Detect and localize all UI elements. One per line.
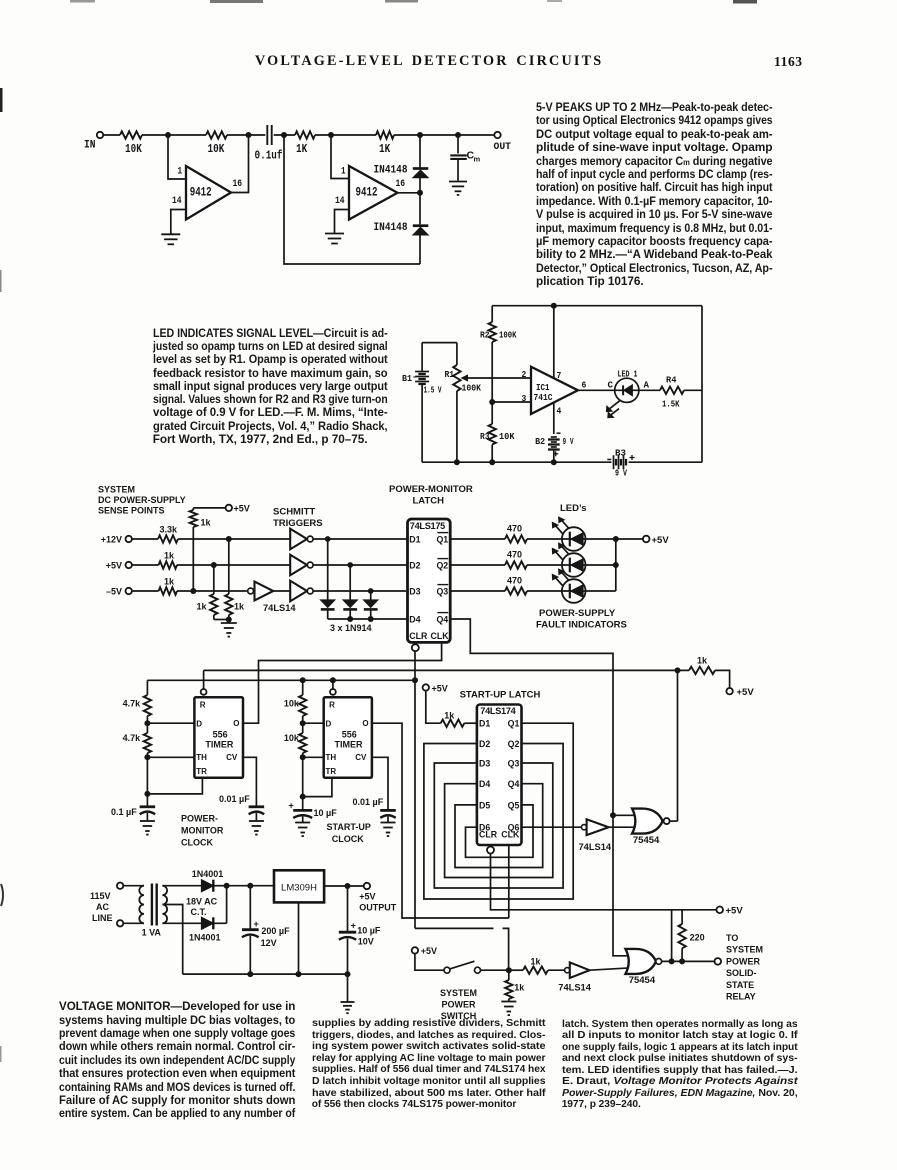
svg-text:9412: 9412 <box>356 185 378 199</box>
svg-text:+5V: +5V <box>359 891 375 901</box>
svg-text:Q2: Q2 <box>436 561 448 571</box>
svg-text:+: + <box>254 919 259 929</box>
svg-text:AC: AC <box>96 902 109 912</box>
svg-text:1.5 V: 1.5 V <box>424 385 442 396</box>
svg-text:12V: 12V <box>261 938 277 948</box>
svg-text:SWITCH: SWITCH <box>441 1011 477 1021</box>
svg-text:RELAY: RELAY <box>726 992 756 1002</box>
svg-text:D4: D4 <box>479 779 490 789</box>
svg-text:R4: R4 <box>666 375 677 386</box>
svg-text:SOLID-: SOLID- <box>726 968 757 978</box>
svg-text:3 x 1N914: 3 x 1N914 <box>330 623 372 633</box>
svg-text:MONITOR: MONITOR <box>181 826 224 836</box>
svg-text:+5V: +5V <box>737 687 755 698</box>
svg-text:CLR: CLR <box>479 830 498 840</box>
svg-text:10K: 10K <box>125 142 142 156</box>
svg-text:R3: R3 <box>480 431 490 442</box>
svg-text:470: 470 <box>507 524 522 534</box>
svg-text:CLOCK: CLOCK <box>332 834 364 844</box>
svg-text:1N4001: 1N4001 <box>192 869 224 879</box>
svg-text:CLK: CLK <box>431 631 450 641</box>
svg-text:B1: B1 <box>402 373 412 384</box>
svg-text:A: A <box>644 380 650 391</box>
svg-text:0.01 µF: 0.01 µF <box>219 794 250 804</box>
svg-text:2: 2 <box>522 369 527 380</box>
svg-text:1: 1 <box>178 167 183 178</box>
svg-text:D2: D2 <box>479 739 490 749</box>
svg-text:POWER-MONITOR: POWER-MONITOR <box>389 484 473 495</box>
svg-text:200 µF: 200 µF <box>261 926 290 936</box>
svg-text:556: 556 <box>342 729 357 739</box>
svg-text:4.7k: 4.7k <box>123 733 142 743</box>
svg-text:1K: 1K <box>379 142 391 156</box>
svg-text:B3: B3 <box>615 448 626 459</box>
svg-text:1.5K: 1.5K <box>662 399 680 410</box>
svg-text:C.T.: C.T. <box>191 907 207 917</box>
svg-text:TO: TO <box>726 933 738 943</box>
svg-text:C: C <box>608 380 614 391</box>
svg-text:D4: D4 <box>409 615 420 625</box>
svg-text:CLOCK: CLOCK <box>181 838 213 848</box>
svg-text:10k: 10k <box>284 699 300 709</box>
svg-text:SYSTEM: SYSTEM <box>726 945 763 955</box>
svg-text:74LS14: 74LS14 <box>558 983 591 993</box>
svg-text:LATCH: LATCH <box>413 496 445 507</box>
svg-text:SENSE POINTS: SENSE POINTS <box>98 506 165 516</box>
svg-text:CLK: CLK <box>501 830 520 840</box>
svg-text:16: 16 <box>396 179 406 190</box>
svg-text:TH: TH <box>196 753 207 762</box>
svg-text:Q4: Q4 <box>508 779 520 789</box>
svg-text:0.01 µF: 0.01 µF <box>353 797 384 807</box>
svg-text:D: D <box>196 719 202 728</box>
svg-text:TR: TR <box>196 767 207 776</box>
svg-text:+5V: +5V <box>726 906 744 917</box>
svg-text:1: 1 <box>341 167 346 178</box>
svg-text:O: O <box>362 719 368 728</box>
svg-text:TH: TH <box>326 753 337 762</box>
svg-text:10V: 10V <box>358 937 374 947</box>
svg-text:D3: D3 <box>479 759 490 769</box>
svg-text:m: m <box>474 155 481 164</box>
svg-text:0.1 µF: 0.1 µF <box>111 807 137 817</box>
svg-text:OUTPUT: OUTPUT <box>359 903 397 913</box>
svg-text:18V AC: 18V AC <box>186 897 218 907</box>
svg-text:Q1: Q1 <box>436 535 448 545</box>
svg-text:STATE: STATE <box>726 980 754 990</box>
svg-text:1N4001: 1N4001 <box>189 933 221 943</box>
svg-text:SYSTEM: SYSTEM <box>440 988 477 998</box>
svg-text:SYSTEM: SYSTEM <box>98 485 135 495</box>
svg-text:IN: IN <box>84 140 96 152</box>
svg-text:1k: 1k <box>164 577 175 587</box>
svg-text:FAULT INDICATORS: FAULT INDICATORS <box>536 620 627 631</box>
svg-text:100K: 100K <box>462 383 482 394</box>
svg-text:+5V: +5V <box>432 683 448 693</box>
svg-text:SCHMITT: SCHMITT <box>273 507 315 518</box>
svg-text:74LS174: 74LS174 <box>480 706 516 716</box>
svg-text:TRIGGERS: TRIGGERS <box>273 518 323 529</box>
svg-text:4.7k: 4.7k <box>123 699 142 709</box>
svg-text:1k: 1k <box>197 602 208 612</box>
svg-text:R2: R2 <box>480 330 490 341</box>
svg-text:–5V: –5V <box>106 587 122 597</box>
svg-text:B2: B2 <box>535 436 545 447</box>
svg-text:+: + <box>351 921 356 931</box>
svg-text:Q1: Q1 <box>508 719 520 729</box>
svg-text:D5: D5 <box>479 800 490 810</box>
svg-text:75454: 75454 <box>629 975 656 986</box>
svg-text:START-UP: START-UP <box>327 822 371 832</box>
svg-text:D3: D3 <box>409 587 420 597</box>
svg-text:3.3k: 3.3k <box>160 525 179 535</box>
svg-text:1 VA: 1 VA <box>142 928 162 938</box>
svg-text:TIMER: TIMER <box>205 740 233 750</box>
svg-text:POWER: POWER <box>726 956 761 966</box>
svg-text:10K: 10K <box>499 431 515 442</box>
svg-text:+5V: +5V <box>234 504 250 514</box>
svg-text:R: R <box>200 701 206 710</box>
svg-text:IN4148: IN4148 <box>374 222 408 234</box>
svg-text:D2: D2 <box>409 561 420 571</box>
svg-text:1k: 1k <box>697 656 708 666</box>
svg-text:+5V: +5V <box>652 535 670 546</box>
svg-text:75454: 75454 <box>633 835 660 846</box>
svg-text:10k: 10k <box>284 733 300 743</box>
svg-text:DC POWER-SUPPLY: DC POWER-SUPPLY <box>98 495 186 505</box>
svg-text:POWER-SUPPLY: POWER-SUPPLY <box>539 608 616 619</box>
svg-text:10K: 10K <box>208 142 225 156</box>
svg-text:D1: D1 <box>409 535 420 545</box>
svg-text:Q5: Q5 <box>508 800 520 810</box>
svg-text:+12V: +12V <box>101 535 122 545</box>
svg-text:R1: R1 <box>445 369 455 380</box>
svg-text:IN4148: IN4148 <box>374 165 408 177</box>
svg-text:CV: CV <box>226 753 238 762</box>
svg-text:9 V: 9 V <box>563 436 574 447</box>
svg-text:74LS175: 74LS175 <box>410 521 445 531</box>
svg-text:7: 7 <box>557 370 562 381</box>
svg-text:10 µF: 10 µF <box>357 926 381 936</box>
svg-text:TIMER: TIMER <box>335 740 363 750</box>
svg-text:+5V: +5V <box>106 561 122 571</box>
svg-text:Q2: Q2 <box>508 739 520 749</box>
svg-text:O: O <box>233 719 239 728</box>
svg-text:START-UP LATCH: START-UP LATCH <box>460 690 541 701</box>
svg-text:+5V: +5V <box>421 946 437 956</box>
svg-text:74LS14: 74LS14 <box>579 842 612 852</box>
svg-text:TR: TR <box>326 767 337 776</box>
svg-text:10 µF: 10 µF <box>314 808 338 818</box>
svg-text:16: 16 <box>233 179 243 190</box>
svg-text:+: + <box>289 801 294 811</box>
svg-text:LM309H: LM309H <box>281 883 317 894</box>
svg-text:POWER-: POWER- <box>181 814 218 824</box>
svg-text:LED’s: LED’s <box>560 503 587 514</box>
svg-text:470: 470 <box>507 576 522 586</box>
svg-text:9412: 9412 <box>190 185 212 199</box>
svg-text:OUT: OUT <box>494 141 512 153</box>
svg-text:1k: 1k <box>531 957 542 967</box>
svg-text:4: 4 <box>557 406 562 417</box>
svg-text:Q3: Q3 <box>508 759 520 769</box>
svg-text:6: 6 <box>582 380 587 391</box>
svg-text:POWER: POWER <box>441 1000 476 1010</box>
svg-text:14: 14 <box>335 196 345 207</box>
svg-text:D1: D1 <box>479 719 490 729</box>
svg-text:0.1uf: 0.1uf <box>255 150 283 163</box>
svg-text:1k: 1k <box>444 711 455 721</box>
svg-text:1k: 1k <box>514 983 525 993</box>
svg-text:LINE: LINE <box>92 913 113 923</box>
svg-text:741C: 741C <box>534 392 553 403</box>
svg-text:1K: 1K <box>296 142 308 156</box>
svg-text:CV: CV <box>355 753 367 762</box>
svg-text:470: 470 <box>507 550 522 560</box>
svg-text:74LS14: 74LS14 <box>263 603 296 613</box>
svg-text:556: 556 <box>213 729 228 739</box>
svg-text:100K: 100K <box>499 330 517 341</box>
svg-text:Q3: Q3 <box>436 587 448 597</box>
svg-text:1k: 1k <box>201 518 212 528</box>
svg-text:CLR: CLR <box>409 631 428 641</box>
svg-text:14: 14 <box>172 196 182 207</box>
svg-text:1k: 1k <box>164 551 175 561</box>
svg-text:LED 1: LED 1 <box>618 369 638 380</box>
svg-text:9 V: 9 V <box>615 468 627 479</box>
svg-text:1k: 1k <box>234 602 245 612</box>
svg-text:Q4: Q4 <box>436 615 448 625</box>
svg-text:115V: 115V <box>90 891 111 901</box>
svg-text:R: R <box>329 701 335 710</box>
svg-text:-: - <box>412 373 417 382</box>
svg-text:D: D <box>326 719 332 728</box>
svg-text:220: 220 <box>690 933 705 943</box>
svg-text:3: 3 <box>522 393 527 404</box>
